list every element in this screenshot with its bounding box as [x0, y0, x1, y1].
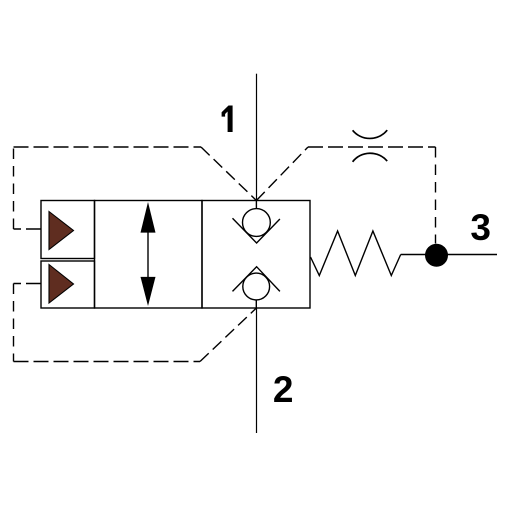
- svg-text:3: 3: [470, 207, 491, 248]
- svg-text:2: 2: [273, 369, 294, 410]
- wire: stub into top actuator: [14, 228, 42, 230]
- port 3 line (right): [401, 254, 497, 256]
- check valve upper: V seat: [233, 218, 280, 243]
- wire: left vertical down: [13, 284, 15, 362]
- wire: top horizontal left span: [14, 146, 202, 148]
- wire: bottom horizontal span: [14, 361, 201, 363]
- wire: left vertical up: [13, 147, 15, 229]
- valve body right section (check valve box): [202, 201, 310, 309]
- wire: diagonal down to valve top tap: [201, 147, 256, 201]
- valve body middle section (metering spool box with flow arrow): [95, 201, 203, 309]
- check valve upper: stub to body top: [255, 201, 257, 209]
- wire: diagonal up to valve bottom tap: [200, 308, 256, 362]
- double-headed metering arrow: [141, 202, 156, 306]
- restriction orifice lower arc: [353, 153, 388, 162]
- wire: vertical down to junction node: [435, 147, 437, 244]
- check valve lower: stub to body bottom: [255, 300, 257, 308]
- restriction orifice upper arc: [353, 130, 388, 138]
- port 1 line (top): [256, 74, 258, 201]
- pilot actuator box top-left: [41, 201, 95, 259]
- check valve lower: inverted-V seat: [233, 267, 280, 292]
- pilot triangle (top actuator): [49, 212, 74, 250]
- wire: stub into bottom actuator: [14, 283, 42, 285]
- port 2 line (bottom): [256, 308, 258, 433]
- pilot actuator box bottom-left: [41, 261, 95, 308]
- spring: [311, 231, 401, 276]
- check valve upper: ball circle: [243, 209, 271, 237]
- junction node dot at port 3: [425, 244, 448, 267]
- pilot line dashed: upper route from actuator to port1 tap and orifice to node: [14, 147, 436, 362]
- wire: top horizontal right span through orifice: [308, 146, 436, 148]
- pilot triangle (bottom actuator): [49, 265, 74, 304]
- wire: diagonal up-right from valve top tap: [256, 147, 308, 201]
- port label 1: [222, 106, 233, 133]
- check valve lower: ball circle: [243, 273, 270, 300]
